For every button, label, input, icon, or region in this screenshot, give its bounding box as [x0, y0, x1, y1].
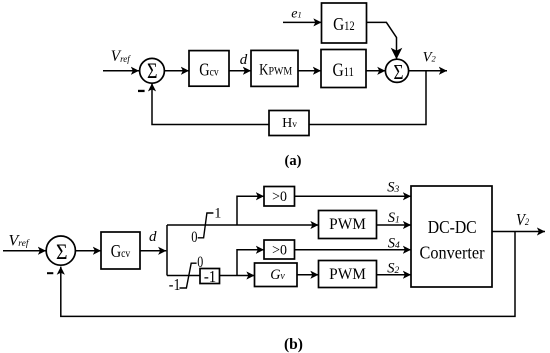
- switch symbol lower (b): [180, 263, 197, 288]
- svg-text:V2: V2: [516, 211, 530, 229]
- block DC-DC converter (b): [411, 186, 492, 287]
- wire feedback (b): [61, 232, 515, 317]
- svg-text:e1: e1: [291, 7, 301, 22]
- svg-text:>0: >0: [272, 189, 287, 206]
- wire e1 input (a): [283, 21, 322, 23]
- block PWM1 (b): [319, 211, 377, 239]
- svg-text:(b): (b): [284, 336, 303, 353]
- block G12 (a): [322, 3, 367, 43]
- svg-text:Σ: Σ: [393, 61, 403, 84]
- wire S2 to converter (b): [377, 274, 412, 276]
- svg-text:-1: -1: [169, 276, 181, 294]
- svg-text:>0: >0: [272, 242, 287, 259]
- wire Gcv to Kpwm (a): [229, 70, 251, 72]
- svg-text:PWM: PWM: [329, 216, 366, 233]
- svg-text:Vref: Vref: [111, 48, 131, 65]
- wire lower branch to -1 block (b): [167, 275, 200, 277]
- svg-text:Gv: Gv: [270, 267, 285, 283]
- wire sum to Gcv (b): [75, 250, 101, 252]
- svg-text:Converter: Converter: [420, 243, 485, 263]
- wire upper tap to comparator1 (b): [237, 196, 264, 225]
- svg-text:DC-DC: DC-DC: [428, 217, 477, 237]
- svg-text:S2: S2: [387, 260, 399, 276]
- svg-text:0: 0: [197, 253, 203, 271]
- block PWM2 (b): [319, 261, 377, 288]
- wire Gv to PWM2 (b): [297, 274, 319, 276]
- svg-text:Gcv: Gcv: [199, 59, 219, 80]
- svg-text:Gcv: Gcv: [111, 240, 131, 261]
- wire Hv to sum1 (a): [152, 83, 269, 124]
- svg-text:0: 0: [191, 229, 197, 247]
- wire Vref input (a): [103, 70, 139, 72]
- block Gcv (b): [101, 232, 140, 269]
- svg-text:S3: S3: [387, 179, 399, 195]
- wire S4 to converter (b): [295, 249, 412, 251]
- wire Vref input (b): [3, 250, 46, 252]
- svg-text:(a): (a): [285, 153, 302, 169]
- svg-text:-1: -1: [204, 268, 216, 286]
- minus sign sum1 (a): [138, 90, 145, 92]
- wire -1 block to Gv (b): [220, 275, 255, 277]
- svg-text:G12: G12: [333, 14, 355, 34]
- svg-text:Vref: Vref: [9, 232, 30, 249]
- block Hv (a): [269, 111, 309, 136]
- svg-text:Σ: Σ: [147, 59, 158, 83]
- wire Gcv to split node (b): [140, 250, 166, 252]
- wire upper branch to PWM1 (b): [167, 224, 319, 226]
- wire S3 to converter (b): [295, 195, 412, 197]
- summing junction sum (b): [46, 236, 75, 265]
- wire lower tap to comparator2 (b): [237, 250, 264, 276]
- svg-text:S4: S4: [388, 235, 400, 251]
- block comparator2 >0 (b): [264, 240, 295, 259]
- wire V2 output (b): [492, 231, 545, 233]
- block Gcv (a): [189, 51, 229, 87]
- switch symbol upper (b): [198, 213, 214, 238]
- wire feedback down-left (a): [309, 71, 426, 125]
- svg-text:KPWM: KPWM: [259, 61, 292, 78]
- wire Kpwm to G11 (a): [298, 70, 321, 72]
- wire G12 to sum2 (a): [367, 22, 397, 59]
- minus sign sum (b): [47, 272, 53, 274]
- wire sum1 to Gcv (a): [164, 70, 189, 72]
- svg-text:V2: V2: [423, 49, 437, 65]
- svg-text:S1: S1: [388, 210, 400, 226]
- svg-text:Σ: Σ: [56, 239, 68, 264]
- svg-text:d: d: [240, 52, 248, 68]
- wire split vertical (b): [166, 225, 168, 276]
- svg-text:1: 1: [214, 205, 221, 221]
- wire V2 output (a): [409, 70, 447, 72]
- svg-text:PWM: PWM: [329, 266, 366, 283]
- wire S1 to converter (b): [377, 224, 412, 226]
- block comparator1 >0 (b): [264, 187, 295, 207]
- svg-text:G11: G11: [333, 60, 355, 81]
- svg-text:d: d: [149, 229, 157, 245]
- summing junction sum2 (a): [385, 59, 408, 82]
- block Kpwm (a): [251, 50, 298, 86]
- svg-text:Hv: Hv: [282, 116, 297, 131]
- block minus one (b): [200, 269, 220, 284]
- wire G11 to sum2 (a): [366, 70, 385, 72]
- summing junction sum1 (a): [140, 58, 165, 83]
- block G11 (a): [321, 50, 366, 88]
- block Gv (b): [255, 263, 298, 287]
